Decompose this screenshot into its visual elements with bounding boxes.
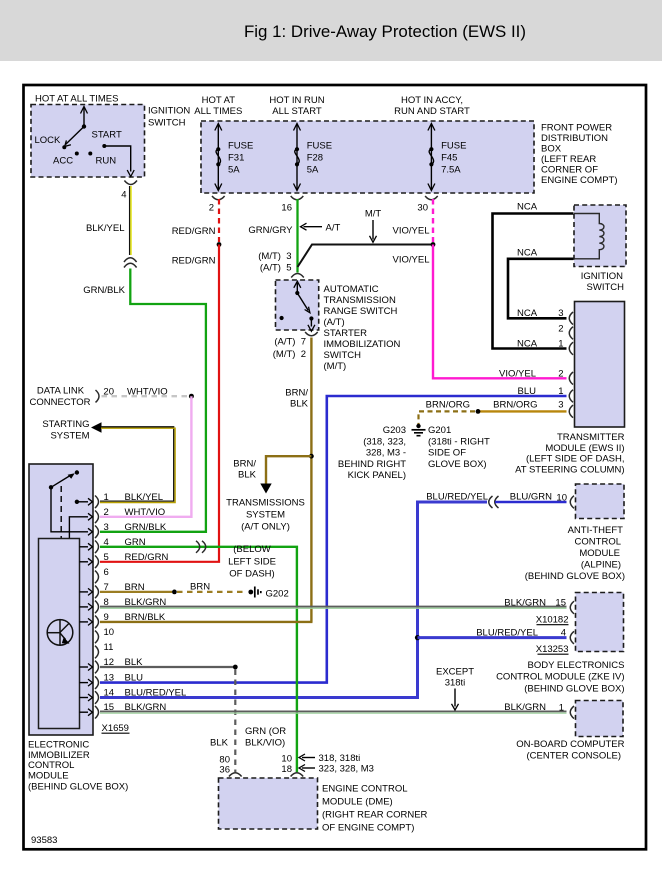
svg-text:(A/T) 7: (A/T) 7 [274, 337, 306, 348]
svg-text:GRN/GRY: GRN/GRY [248, 225, 293, 236]
transmitter pin 2 arc [569, 327, 573, 340]
svg-text:RUN: RUN [96, 156, 117, 167]
transmitter module (EWS II) box [575, 302, 625, 428]
wire BRN/BLK from immobilizer pin 9 [100, 621, 313, 623]
A/T pointer arrow [301, 223, 341, 234]
svg-text:GRN (ORBLK/VIO): GRN (ORBLK/VIO) [245, 726, 286, 749]
wire WHT/VIO dashed from data link connector [102, 395, 189, 397]
svg-text:BLU/RED/YEL: BLU/RED/YEL [476, 628, 538, 639]
wire WHT/VIO solid to immobilizer pin 2 [100, 396, 191, 517]
wire BLU/GRN to anti-theft pin 10 [495, 501, 567, 504]
wire VIO/YEL dashed from fuse F45 pin 30 [432, 199, 434, 242]
svg-text:2: 2 [558, 369, 563, 380]
connector arc below ignition switch pin 4 [124, 181, 137, 185]
svg-text:6: 6 [104, 567, 109, 578]
svg-text:(BELOWLEFT SIDEOF DASH): (BELOWLEFT SIDEOF DASH) [228, 544, 276, 580]
immobilizer pin 5 arc [95, 556, 99, 569]
svg-text:ACC: ACC [53, 156, 73, 167]
transmitter pin 2 arc (VIO/YEL) [569, 372, 573, 385]
front power distribution box [201, 121, 534, 193]
svg-text:3: 3 [104, 522, 109, 533]
wire GRN/BLK to immobilizer pin 3 [100, 269, 206, 532]
immobilizer pin 1 arc [95, 496, 99, 509]
fuse F45 7.5A [428, 124, 467, 191]
svg-text:BRN/ORG: BRN/ORG [426, 400, 470, 411]
svg-text:4: 4 [561, 628, 566, 639]
svg-text:3: 3 [558, 308, 563, 319]
junction on BRN wire [172, 590, 177, 595]
svg-text:BLK: BLK [210, 738, 229, 749]
svg-text:BLK/GRN: BLK/GRN [504, 702, 546, 713]
body electronics pin 4 arc [570, 631, 574, 644]
in-line connector (double arc) on BLK/YEL wire [124, 258, 137, 268]
wire BLK dashed down to ECM [234, 670, 236, 773]
wire GRN/GRY from fuse F28 pin 16 [296, 199, 298, 273]
svg-text:HOT IN ACCY,RUN AND START: HOT IN ACCY,RUN AND START [394, 95, 470, 117]
label EXCEPT 318ti with down arrow [436, 667, 474, 711]
immobilizer pin 7 arc [95, 586, 99, 599]
wire NCA (ignition switch to transmitter pin 1) [493, 214, 574, 349]
immobilizer inner unit box [39, 539, 80, 729]
connector label X1659 [102, 723, 130, 734]
arrow 318, 318ti [299, 753, 360, 764]
immobilizer pin 13 arc [95, 676, 99, 689]
svg-text:2: 2 [558, 324, 563, 335]
junction on BLK wire [233, 665, 238, 670]
junction on BRN/BLK wire [309, 454, 314, 459]
immobilizer pin 11 arc [95, 646, 99, 659]
connector label X13253 [536, 644, 569, 655]
svg-text:30: 30 [417, 203, 428, 214]
svg-text:VIO/YEL: VIO/YEL [499, 369, 536, 380]
data link connector pin 20 arc [96, 390, 100, 402]
anti-theft pin 10 arc [570, 496, 574, 509]
wire BRN/ORG dashed to ground [419, 411, 476, 424]
svg-text:11: 11 [104, 642, 114, 653]
svg-text:DATA LINKCONNECTOR: DATA LINKCONNECTOR [29, 386, 90, 409]
engine control module (DME) box [219, 778, 318, 829]
body electronics control module box [576, 593, 624, 652]
svg-text:(M/T) 3: (M/T) 3 [258, 251, 291, 262]
svg-text:WHT/VIO: WHT/VIO [127, 387, 168, 398]
svg-text:RED/GRN: RED/GRN [172, 226, 216, 237]
svg-text:(A/T) 5: (A/T) 5 [260, 263, 292, 274]
immobilizer pin 9 arc [95, 616, 99, 629]
wire BLK/GRN from immobilizer pin 8 to body electronics pin 15 [100, 607, 567, 609]
svg-text:BLU/RED/YEL: BLU/RED/YEL [426, 492, 488, 503]
wire VIO/YEL solid to transmitter module pin 2 [433, 245, 567, 379]
svg-text:10: 10 [104, 627, 115, 638]
immobilizer pin numbers 1-15 [104, 492, 115, 713]
svg-text:X10182: X10182 [536, 615, 569, 626]
immobilizer pin 12 arc [95, 661, 99, 674]
junction on BRN/ORG wire [476, 409, 481, 414]
wire BLK/YEL from immobilizer pin 1 to starting system [100, 427, 175, 503]
svg-text:BRN/ORG: BRN/ORG [493, 400, 537, 411]
wire BLU/RED/YEL branch to body electronics pin 4 [418, 636, 567, 639]
connector arc below A/T switch [305, 332, 318, 336]
wire BRN/BLK from A/T switch down [310, 338, 312, 622]
fuse F31 5A [215, 124, 254, 191]
immobilizer pin 15 arc [95, 706, 99, 719]
svg-text:X13253: X13253 [536, 644, 569, 655]
in-line connector (double arc) on BLU/GRN wire [489, 496, 499, 508]
svg-text:36: 36 [219, 765, 230, 776]
svg-text:IGNITIONSWITCH: IGNITIONSWITCH [148, 106, 190, 129]
on-board computer pin 1 arc [570, 706, 574, 719]
svg-text:16: 16 [281, 203, 292, 214]
svg-text:GRN/BLK: GRN/BLK [125, 522, 167, 533]
immobilizer pin 14 arc [95, 691, 99, 704]
svg-text:HOT AT ALL TIMES: HOT AT ALL TIMES [35, 94, 118, 105]
junction on RED/GRN wire [217, 242, 222, 247]
wire NCA (ignition switch to transmitter pin 3) [508, 259, 574, 319]
svg-text:318, 318ti: 318, 318ti [319, 753, 361, 764]
wire GRN from immobilizer pin 4 to ECM [100, 547, 297, 772]
title bar [0, 0, 662, 61]
svg-text:VIO/YEL: VIO/YEL [393, 226, 430, 237]
svg-text:RED/GRN: RED/GRN [172, 256, 216, 267]
connector arc below fuse F45 [425, 196, 438, 200]
svg-text:93583: 93583 [31, 835, 57, 846]
ignition switch (left, LOCK/ACC/RUN/START) [31, 105, 145, 178]
connector arc at ECM pin 80/36 [229, 773, 242, 777]
svg-text:NCA: NCA [517, 308, 538, 319]
immobilizer internal switch [49, 470, 93, 538]
svg-text:GRN/BLK: GRN/BLK [83, 285, 125, 296]
junction on WHT/VIO wire [189, 394, 194, 399]
ground splice G202 [248, 587, 288, 600]
svg-text:10: 10 [281, 754, 292, 765]
svg-text:13: 13 [104, 673, 115, 684]
wire RED/GRN solid to immobilizer pin 5 [100, 245, 219, 562]
svg-text:BLU/RED/YEL: BLU/RED/YEL [125, 688, 187, 699]
svg-text:M/T: M/T [365, 209, 382, 220]
immobilizer pin 2 arc [95, 511, 99, 524]
immobilizer pin 6 arc [95, 571, 99, 584]
in-line connector (double arc) on GRN wire [196, 541, 206, 553]
svg-text:HOT IN RUNALL START: HOT IN RUNALL START [269, 95, 324, 117]
arrow 323, 328, M3 [299, 764, 374, 775]
svg-text:BLK/YEL: BLK/YEL [125, 492, 164, 503]
immobilizer transponder coil symbol [47, 620, 73, 646]
ground G203/G201 [412, 424, 426, 436]
connector label X10182 [536, 615, 569, 626]
svg-text:1: 1 [104, 492, 109, 503]
svg-text:IGNITIONSWITCH: IGNITIONSWITCH [581, 271, 624, 293]
wire BLU from immobilizer pin 13 to transmitter pin 1 [100, 396, 567, 683]
wire BLK from immobilizer pin 12 [100, 666, 233, 668]
svg-text:1: 1 [559, 703, 564, 714]
immobilizer pin 4 arc [95, 541, 99, 554]
junction on BLU/RED/YEL wire [415, 635, 420, 640]
svg-text:START: START [92, 130, 122, 141]
immobilizer pin 8 arc [95, 601, 99, 614]
svg-text:323, 328, M3: 323, 328, M3 [319, 764, 374, 775]
svg-text:NCA: NCA [517, 248, 538, 259]
svg-text:G202: G202 [266, 589, 289, 600]
transmitter pin 3 arc (BRN/ORG) [569, 405, 573, 418]
automatic transmission range switch / starter immobilization switch [276, 280, 319, 331]
svg-text:4: 4 [121, 190, 126, 201]
svg-text:WHT/VIO: WHT/VIO [125, 507, 166, 518]
svg-text:BRN: BRN [190, 582, 210, 593]
connector arc below fuse F31 [212, 196, 225, 200]
anti-theft control module box [576, 484, 625, 519]
wire RED/GRN dashed from fuse F31 pin 2 [218, 199, 220, 242]
svg-text:14: 14 [104, 688, 115, 699]
svg-text:5: 5 [104, 552, 109, 563]
svg-text:(M/T) 2: (M/T) 2 [273, 349, 306, 360]
svg-text:Fig 1: Drive-Away Protection (: Fig 1: Drive-Away Protection (EWS II) [244, 22, 526, 41]
wire BRN from immobilizer pin 7 [100, 591, 172, 593]
immobilizer internal pin arrows [80, 543, 93, 715]
arrow to transmissions system [260, 484, 271, 494]
wire BLU/RED/YEL from immobilizer pin 14 [100, 502, 487, 698]
arrow to starting system [91, 422, 102, 432]
ignition switch (right) with coil [574, 205, 626, 267]
label M/T with down arrow [365, 209, 382, 243]
transmitter pin 3 arc [569, 312, 573, 325]
fuse F28 5A [294, 124, 333, 191]
connector arc at A/T switch entry [291, 274, 304, 278]
svg-text:BLK/YEL: BLK/YEL [86, 223, 125, 234]
svg-text:NCA: NCA [517, 202, 538, 213]
svg-text:ON-BOARD COMPUTER(CENTER CONSO: ON-BOARD COMPUTER(CENTER CONSOLE) [516, 739, 624, 762]
svg-text:2: 2 [104, 507, 109, 518]
electronic immobilizer control module box [29, 464, 93, 735]
immobilizer pin 3 arc [95, 526, 99, 539]
svg-text:18: 18 [281, 764, 292, 775]
svg-text:NCA: NCA [517, 339, 538, 350]
junction on VIO/YEL wire [431, 242, 436, 247]
on-board computer box [576, 701, 624, 737]
svg-text:2: 2 [209, 203, 214, 214]
svg-text:10: 10 [556, 493, 567, 504]
svg-text:VIO/YEL: VIO/YEL [393, 255, 430, 266]
svg-text:1: 1 [558, 339, 563, 350]
immobilizer pin wire labels [125, 492, 187, 713]
wire BLK/GRN from immobilizer pin 15 to on-board computer pin 1 [100, 711, 567, 713]
transmitter pin 1 arc (BLU) [569, 390, 573, 403]
wire BRN/BLK branch to transmissions system [266, 456, 311, 484]
svg-text:15: 15 [555, 598, 566, 609]
svg-text:X1659: X1659 [102, 723, 129, 734]
svg-text:BLU/GRN: BLU/GRN [510, 492, 552, 503]
connector arc below fuse F28 [291, 196, 304, 200]
wire M/T link (black) [298, 245, 434, 268]
body electronics pin 15 arc [570, 601, 574, 614]
transmitter pin 1 arc [569, 342, 573, 355]
svg-text:BLK/GRN: BLK/GRN [504, 598, 546, 609]
svg-text:A/T: A/T [326, 223, 341, 234]
svg-text:LOCK: LOCK [35, 135, 62, 146]
wire BLK/YEL from ignition switch pin 4 [130, 186, 131, 255]
connector arc at ECM pin 10/18 [291, 773, 304, 777]
svg-text:3: 3 [558, 400, 563, 411]
immobilizer pin 10 arc [95, 631, 99, 644]
svg-text:BLU: BLU [125, 673, 144, 684]
wire BRN dashed to G202 [177, 591, 247, 593]
wire BRN/ORG solid to transmitter pin 3 [480, 410, 567, 412]
svg-text:RED/GRN: RED/GRN [125, 552, 169, 563]
